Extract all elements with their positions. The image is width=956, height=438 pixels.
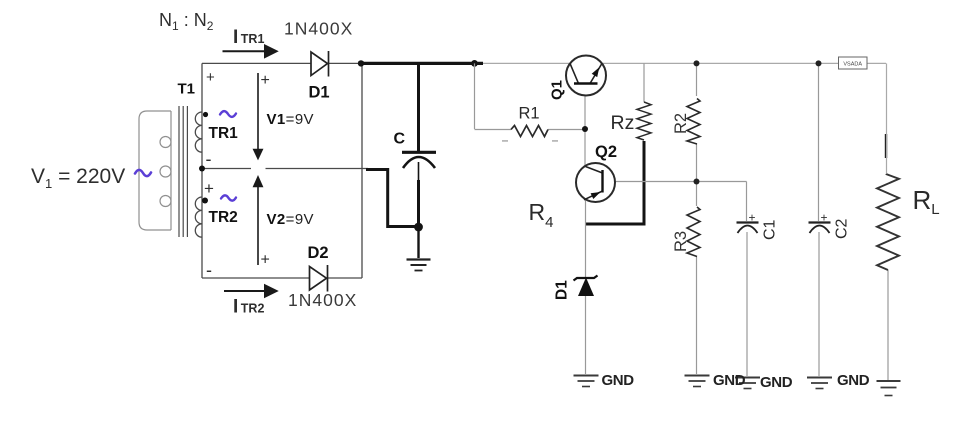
svg-text:N1 : N2: N1 : N2 [159,10,214,33]
svg-text:T1: T1 [178,81,196,98]
svg-text:1N400X: 1N400X [288,290,357,310]
svg-text:TR1: TR1 [209,125,239,142]
svg-text:C: C [394,131,406,148]
svg-text:+: + [261,72,270,89]
svg-text:-: - [206,260,212,280]
svg-text:D1: D1 [554,280,571,300]
svg-text:D2: D2 [308,244,329,262]
svg-text:Rz: Rz [611,112,635,134]
svg-text:+: + [261,252,270,269]
svg-text:V1=9V: V1=9V [267,111,314,128]
svg-text:GND: GND [837,372,870,389]
svg-text:-: - [206,149,212,169]
svg-text:D1: D1 [309,84,330,102]
svg-text:+: + [206,69,215,86]
svg-text:C1: C1 [762,219,779,240]
svg-text:R3: R3 [672,231,690,252]
svg-text:Q2: Q2 [595,143,617,161]
svg-text:+: + [204,179,214,198]
svg-text:+: + [821,211,828,225]
svg-text:V2=9V: V2=9V [267,211,314,228]
svg-text:VSADA: VSADA [843,62,862,68]
svg-text:GND: GND [602,372,635,389]
svg-text:C2: C2 [834,218,851,239]
svg-text:Q1: Q1 [549,80,566,100]
svg-text:R2: R2 [672,113,690,134]
svg-text:TR2: TR2 [209,209,238,226]
svg-text:R1: R1 [519,105,540,123]
svg-text:+: + [749,211,756,225]
svg-text:1N400X: 1N400X [284,19,353,39]
svg-text:GND: GND [713,372,746,389]
svg-text:GND: GND [760,374,793,391]
